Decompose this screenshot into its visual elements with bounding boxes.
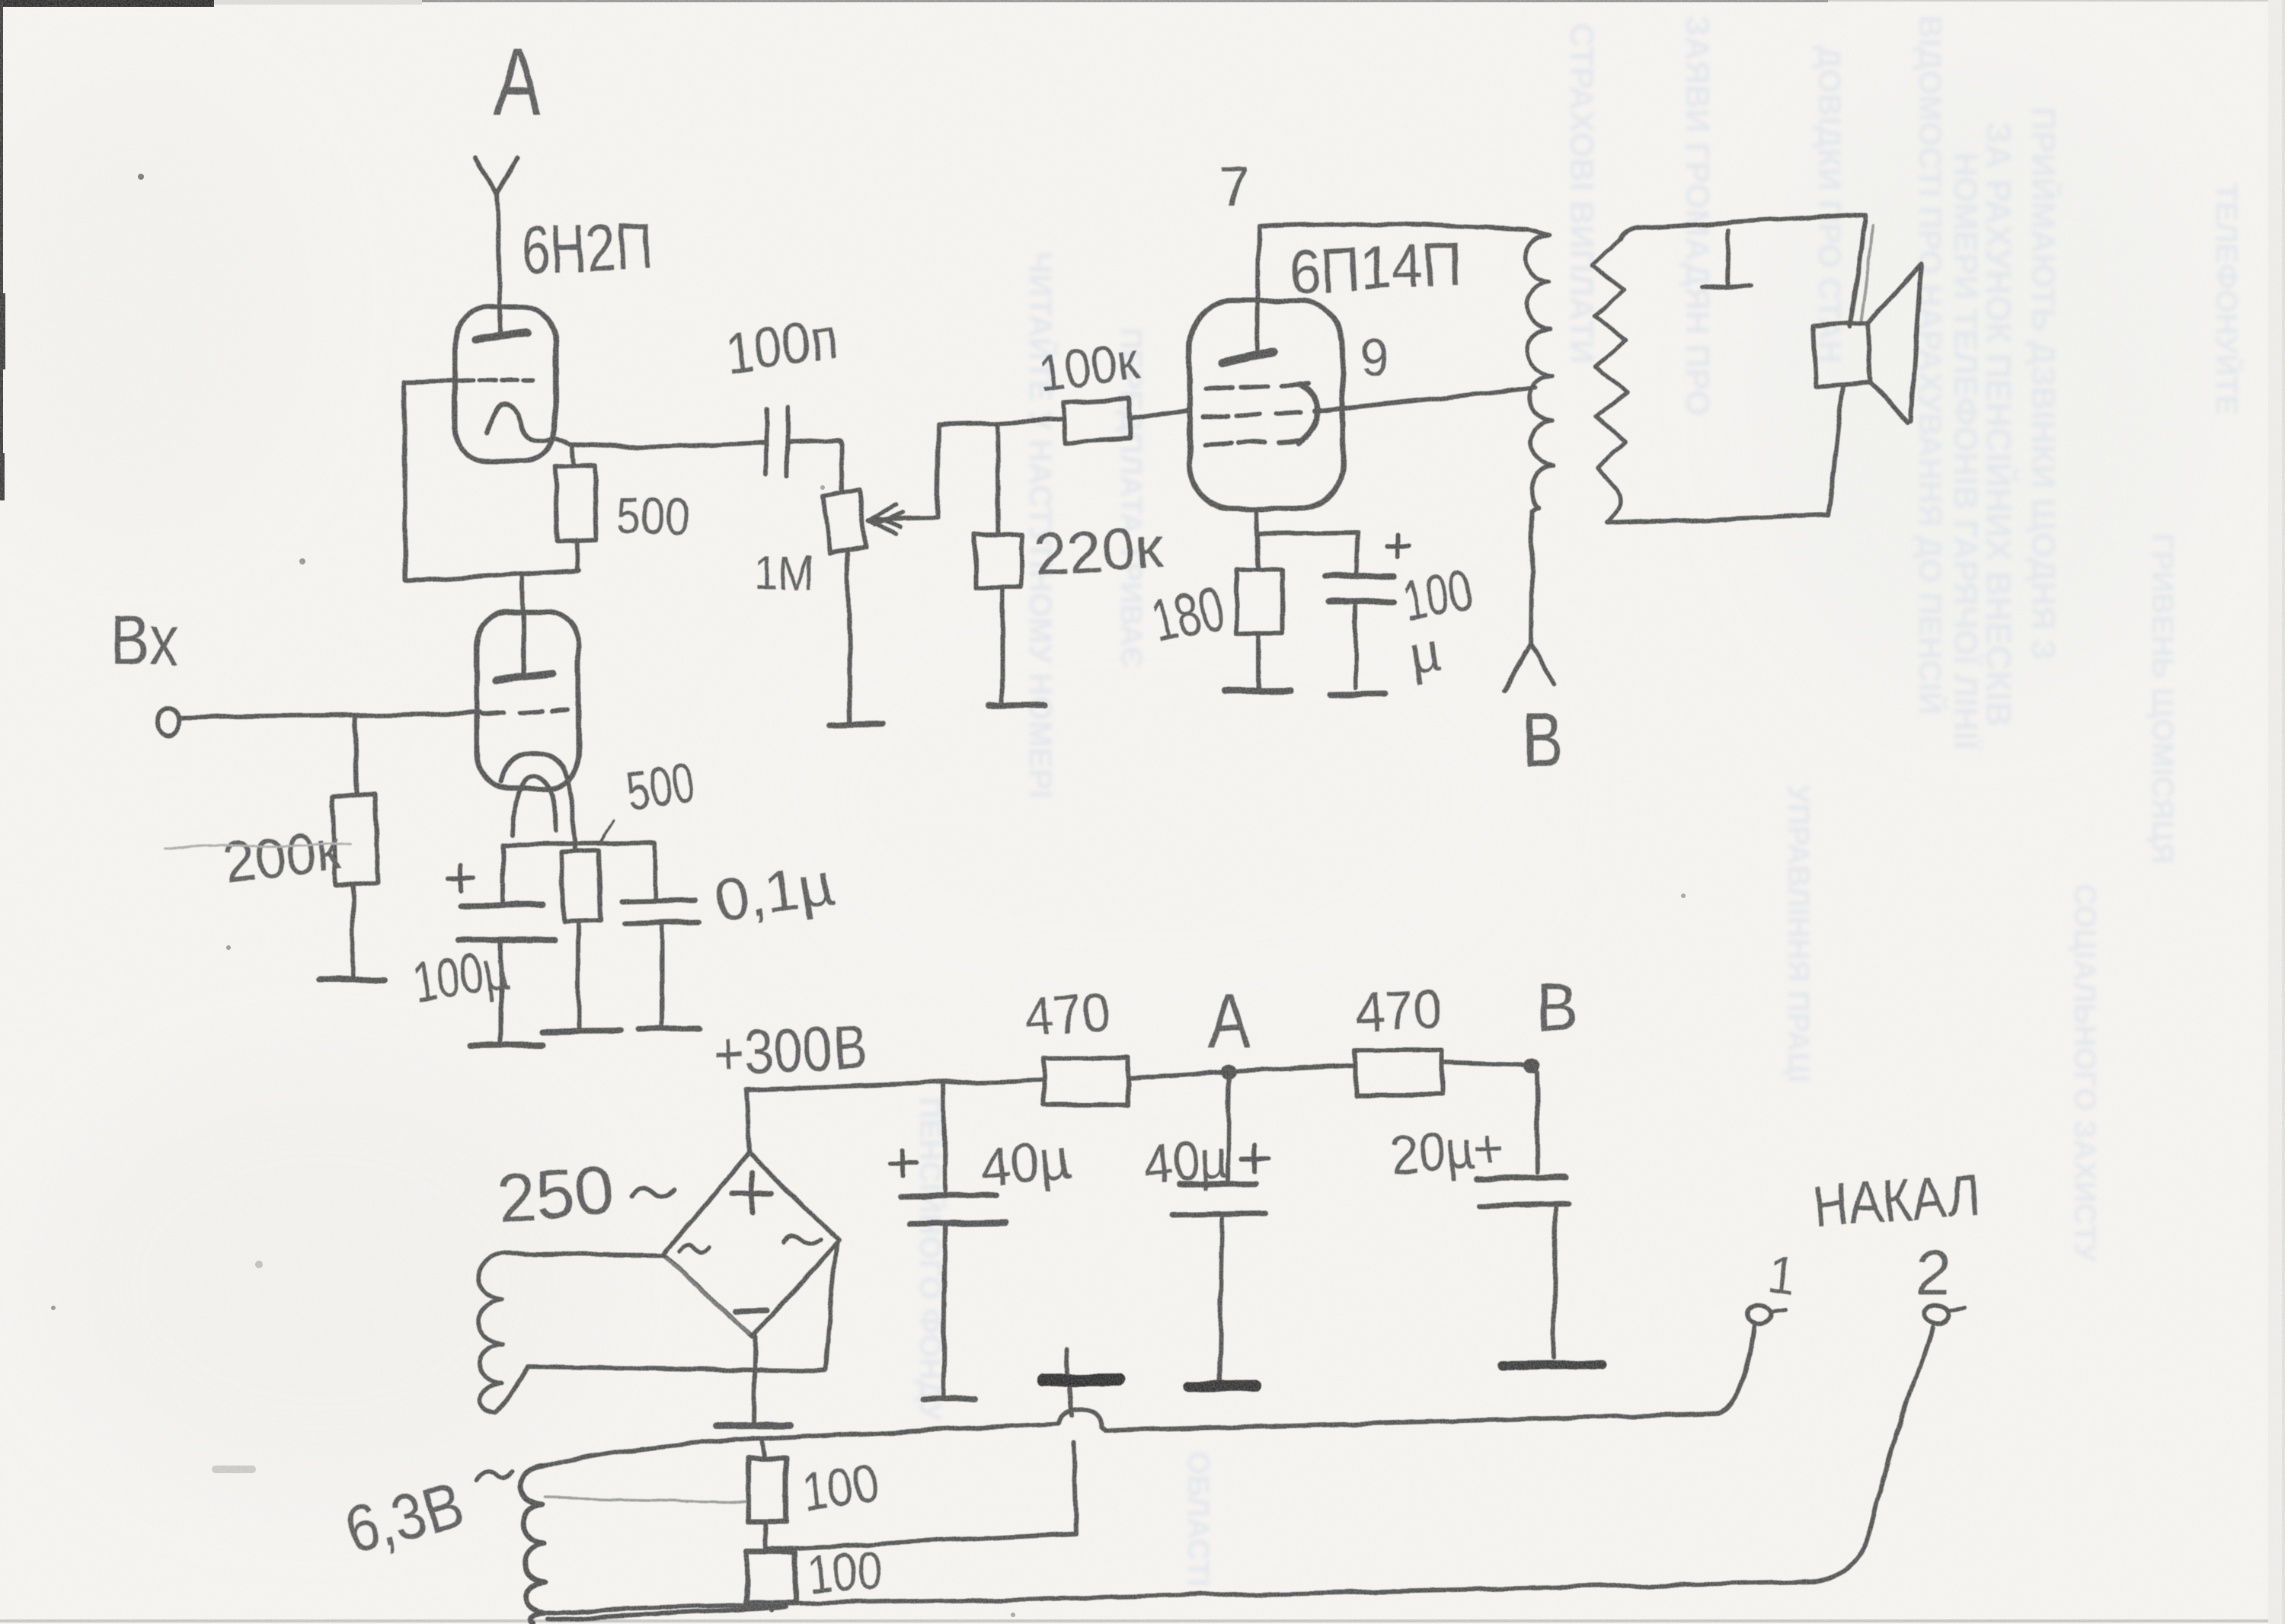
bridge ground stem	[754, 1336, 756, 1421]
ground R3	[543, 1031, 619, 1031]
HV winding bottom lead	[495, 1244, 837, 1412]
HV winding 250 coil	[478, 1254, 504, 1412]
wire corner double stroke	[1861, 225, 1872, 324]
coupling cap C3 100п	[766, 408, 788, 476]
wire corner down to speaker	[1849, 214, 1865, 328]
bridge rectifier	[663, 1153, 839, 1336]
C5 plates	[901, 1195, 996, 1197]
central ground bar (dark)	[1043, 1379, 1119, 1380]
cathode rail V1b	[503, 843, 655, 903]
resistor R1 200к	[333, 794, 379, 887]
wire box to V1b anode	[520, 575, 525, 673]
ac tilde 250	[631, 1188, 673, 1197]
B+ rail	[746, 1080, 1044, 1089]
bridge minus	[736, 1311, 766, 1312]
heater wire 3	[545, 1582, 1813, 1613]
tube V1b cathode inner arc	[513, 775, 557, 835]
wire V1a cathode to coupling cap	[570, 443, 765, 446]
ground C2	[638, 1028, 700, 1029]
R3 leader line	[600, 820, 614, 844]
bridge ac mark left	[679, 1246, 710, 1254]
wiper wire	[869, 419, 1064, 519]
ac tilde 6,3	[477, 1472, 512, 1482]
plus mark C4	[1388, 535, 1409, 556]
input terminal	[158, 708, 181, 735]
wire R9 to node B2	[1443, 1063, 1523, 1065]
bridge ac mark right	[783, 1236, 820, 1245]
bridge second stroke	[666, 1258, 749, 1333]
tee to bypass cap	[1258, 532, 1357, 574]
capacitor C4 100µ plates	[1325, 576, 1395, 577]
resistor R2 500 (upper cathode)	[554, 465, 596, 542]
tap stub with bar	[1702, 231, 1750, 288]
ground C6 (dark)	[1189, 1386, 1256, 1386]
wire grid-feedback box	[404, 381, 579, 581]
capacitor C2 0,1µ plates	[622, 900, 695, 901]
resistor R7 180	[1238, 571, 1282, 634]
ground C7 (dark)	[1503, 1364, 1603, 1366]
C4 stem	[1353, 602, 1358, 688]
wire R6 to V2 grid	[1130, 410, 1190, 420]
wire V2 cathode	[1257, 509, 1259, 571]
tube V1b grid (dashed)	[482, 710, 568, 714]
HV winding 250 lead	[504, 1254, 661, 1255]
plus C5	[891, 1149, 916, 1175]
heater wire 1	[542, 1424, 1059, 1467]
wire anode to OPT top	[1258, 224, 1528, 229]
capacitor C5 40µ lead	[944, 1082, 945, 1191]
C6 plates	[1179, 1184, 1256, 1185]
C5 stem	[944, 1224, 946, 1396]
plus C6	[1242, 1145, 1269, 1172]
heater wire 2	[767, 1533, 1076, 1549]
ground C1	[469, 1044, 543, 1045]
tube V2 anode	[1222, 352, 1274, 363]
ground R4	[830, 724, 883, 725]
terminal 2	[1925, 1305, 1949, 1323]
winding mid lead (faint)	[545, 1498, 748, 1502]
R4 lower lead	[848, 554, 851, 722]
ground R1	[319, 977, 385, 983]
resistor R11 100	[746, 1552, 794, 1603]
tube V1a cathode	[487, 404, 570, 444]
R10 bottom lead	[765, 1522, 767, 1549]
resistor R5 220к leg	[997, 423, 999, 534]
ground bridge	[716, 1425, 789, 1426]
bridge plus	[733, 1173, 772, 1213]
OPT secondary winding (zigzag)	[1593, 241, 1627, 523]
wire R8 to node A	[1127, 1073, 1222, 1079]
tube V2 envelope	[1190, 301, 1343, 509]
resistor R9 470	[1356, 1050, 1443, 1095]
ground R7	[1226, 691, 1290, 692]
rail corner down to bridge	[746, 1089, 749, 1152]
R2 leads	[572, 446, 577, 570]
central ground stem down	[1069, 1387, 1076, 1533]
tube V1b envelope	[477, 612, 579, 788]
R11 bottom lead	[769, 1603, 771, 1610]
R5 lower leg	[1000, 587, 1005, 702]
OPT primary winding	[1526, 229, 1554, 511]
R7 lower lead	[1257, 634, 1261, 688]
C1 stem	[499, 941, 503, 1042]
C6 stem	[1219, 1215, 1222, 1380]
wire secondary top to speaker	[1621, 214, 1865, 241]
resistor R10 100	[748, 1458, 786, 1522]
ground R5	[989, 705, 1043, 705]
speaker cone	[1868, 264, 1922, 421]
tube V1a envelope	[455, 307, 556, 462]
tube V1a grid (dashed)	[458, 380, 533, 381]
node B2 dot	[1523, 1057, 1539, 1073]
ground C4	[1331, 694, 1385, 695]
R3 lower lead	[577, 921, 581, 1028]
wire speaker bottom	[1609, 387, 1843, 523]
tube V2 cathode hook	[1299, 385, 1318, 443]
C7 stem	[1554, 1206, 1556, 1357]
stray pencil line	[165, 843, 350, 847]
bleed-through text (mirrored, very faint)	[913, 15, 2245, 1587]
capacitor C7 20µ lead	[1536, 1072, 1538, 1172]
resistor R10 100 top lead	[761, 1438, 764, 1458]
plus mark C1	[449, 865, 474, 890]
resistor R3 500 (lower cathode)	[561, 851, 601, 922]
wire C3 to pot	[788, 440, 842, 490]
resistor R5 220к	[975, 534, 1022, 587]
node A arrow	[476, 157, 517, 333]
R1 lower leg	[353, 886, 353, 977]
tube V1b anode	[497, 674, 553, 680]
heater winding coil	[521, 1467, 546, 1624]
capacitor C6 40µ lead	[1228, 1072, 1229, 1181]
speaker magnet box	[1814, 323, 1871, 387]
ground C5	[922, 1399, 976, 1399]
resistor R1 200к leg	[355, 717, 356, 795]
terminal 1	[1747, 1306, 1772, 1324]
wire node A to R9	[1235, 1065, 1356, 1071]
resistor R6 100к	[1063, 399, 1131, 443]
potentiometer R4 1М	[823, 490, 866, 554]
wire V2 screen to OPT tap	[1314, 387, 1536, 411]
wire 1 hop	[1059, 1327, 1754, 1431]
wire 3 curve to terminal 2	[1813, 1327, 1932, 1582]
input wire	[181, 713, 480, 718]
R4 wiper arrow	[869, 505, 903, 534]
tube V2 grids (dashed rows)	[1206, 384, 1308, 388]
tube V1a anode	[475, 333, 527, 339]
capacitor C1 100µ plates	[461, 905, 543, 906]
C2 stem	[660, 923, 664, 1026]
dust specks	[138, 174, 144, 180]
node B arrow	[1504, 644, 1554, 690]
node A dot	[1221, 1064, 1236, 1079]
C7 plates	[1476, 1177, 1566, 1178]
tube V1b cathode	[500, 753, 576, 852]
wire to node B arrow	[1531, 511, 1532, 644]
central ground stub	[1066, 1348, 1067, 1373]
pin 7 wire	[1257, 226, 1258, 353]
resistor R8 470	[1044, 1058, 1127, 1105]
